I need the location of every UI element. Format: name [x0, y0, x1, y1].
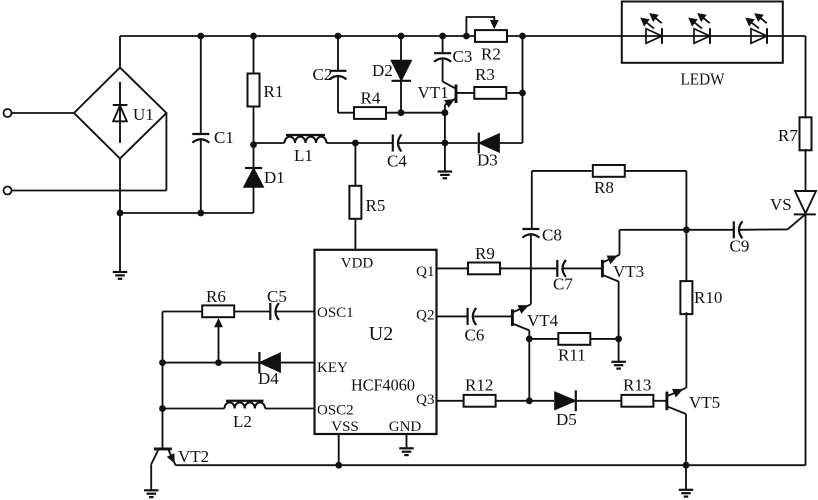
wire [165, 113, 167, 191]
wire [280, 362, 314, 364]
resistor R11 [558, 333, 590, 345]
wire [528, 330, 530, 400]
LED 1 [646, 29, 662, 44]
wire [437, 267, 468, 269]
node VT5 emitter / rail [683, 462, 690, 469]
node R2 right [519, 33, 526, 40]
transistor VT4 [511, 309, 514, 326]
capacitor C8 [522, 228, 539, 230]
wire [685, 230, 687, 283]
node bridge-neg junction [117, 210, 124, 217]
capacitor C6 [467, 308, 469, 325]
ground [150, 464, 152, 490]
wire [400, 81, 402, 113]
wire [120, 35, 475, 37]
wire [531, 171, 533, 229]
ground [444, 143, 446, 172]
ground below bridge [113, 271, 128, 273]
svg-text:R2: R2 [481, 45, 501, 64]
LED module box [622, 2, 783, 63]
resistor R10 [680, 281, 692, 314]
svg-text:R1: R1 [264, 82, 284, 101]
R2 wiper arrow [490, 20, 499, 29]
resistor R1 [248, 74, 260, 107]
wire [386, 112, 445, 114]
LED 3 [751, 29, 767, 44]
IC U2 HCF4060 [315, 250, 437, 434]
ground below VT2 [144, 489, 159, 491]
node VT4 emitter / R11 left [526, 336, 533, 343]
wire [200, 36, 202, 134]
wire [626, 170, 687, 172]
diode D1 [244, 168, 264, 187]
resistor R5 [349, 186, 361, 219]
resistor R3 [474, 87, 506, 99]
wire [163, 311, 203, 313]
svg-text:C3: C3 [453, 47, 473, 66]
wire [466, 17, 494, 36]
node R1 bottom / L1 [250, 141, 257, 148]
wire [444, 105, 446, 113]
node C1 top [197, 33, 204, 40]
ground [119, 213, 121, 272]
capacitor C4 [392, 135, 394, 152]
wire [685, 414, 687, 465]
svg-text:L1: L1 [294, 146, 313, 165]
node C3 top [439, 33, 446, 40]
wire [686, 229, 733, 231]
transistor VT1 [455, 85, 458, 104]
wire [805, 214, 807, 465]
svg-text:KEY: KEY [317, 360, 348, 376]
wire [619, 230, 621, 255]
capacitor C9 [733, 221, 735, 238]
wire [507, 35, 806, 37]
wire [253, 107, 255, 145]
thyristor VS [795, 191, 816, 213]
svg-text:R7: R7 [778, 126, 798, 145]
node C2 top [335, 33, 342, 40]
svg-text:VT4: VT4 [527, 311, 559, 330]
node VT1 emitter / C4 row [442, 140, 449, 147]
resistor R9 [468, 263, 500, 275]
node R3 right [519, 90, 526, 97]
wire [176, 464, 806, 466]
resistor R4 [354, 107, 386, 119]
wire [400, 36, 402, 61]
wire [620, 229, 687, 231]
wire [500, 267, 557, 269]
resistor R8 [593, 165, 625, 177]
svg-text:R12: R12 [465, 376, 493, 395]
wire [473, 315, 511, 317]
node KEY / left column [159, 359, 166, 366]
wire [276, 311, 315, 313]
wire [529, 338, 558, 340]
svg-text:C6: C6 [465, 326, 485, 345]
wire [805, 149, 807, 191]
wire [685, 312, 687, 388]
svg-text:D1: D1 [264, 168, 285, 187]
capacitor C2 [330, 70, 347, 72]
wire [163, 362, 259, 364]
node C9 / R10 junction [683, 226, 690, 233]
svg-text:R4: R4 [361, 89, 381, 108]
wire [163, 408, 225, 410]
wire [253, 145, 255, 168]
node VT4 / Q3 row [526, 397, 533, 404]
wire [162, 312, 164, 449]
svg-text:VDD: VDD [341, 256, 374, 272]
wire [354, 219, 356, 250]
svg-text:OSC2: OSC2 [317, 403, 354, 419]
diode D2 [391, 60, 412, 81]
wire [338, 434, 340, 465]
wire [442, 59, 444, 82]
ground [685, 465, 687, 490]
bridge rectifier U1 [74, 68, 166, 159]
svg-text:VT1: VT1 [418, 83, 449, 102]
wire [119, 36, 121, 68]
node D2 top [398, 33, 405, 40]
wire [530, 234, 532, 304]
capacitor C1 [192, 133, 209, 135]
node D2 bottom [398, 109, 405, 116]
node C1 bottom [197, 210, 204, 217]
terminal input bottom [4, 187, 12, 195]
node R5 top junction [352, 140, 359, 147]
node R1 top [250, 33, 257, 40]
wire [590, 338, 618, 340]
wire [506, 92, 522, 94]
node VSS / bottom rail [335, 462, 342, 469]
svg-text:VSS: VSS [331, 419, 359, 435]
wire [445, 142, 478, 144]
svg-text:R13: R13 [623, 376, 651, 395]
wire [685, 171, 687, 230]
resistor R12 [464, 395, 496, 407]
wire [354, 143, 356, 185]
ground below R11 [611, 361, 626, 363]
svg-text:R5: R5 [366, 196, 386, 215]
node OSC2 / left column [159, 405, 166, 412]
ground [406, 434, 408, 448]
inductor L2 [225, 402, 266, 408]
wire [805, 36, 807, 119]
svg-text:D3: D3 [477, 151, 498, 170]
ground below VT1 [438, 170, 453, 172]
svg-text:D2: D2 [372, 61, 393, 80]
wire [437, 400, 464, 402]
diode D5 [555, 392, 576, 410]
svg-text:C2: C2 [313, 65, 333, 84]
transistor VT5 [665, 392, 668, 411]
wire [576, 400, 621, 402]
wire [338, 112, 354, 114]
svg-text:GND: GND [389, 419, 422, 435]
wire [12, 190, 167, 192]
wire [532, 170, 592, 172]
wire [327, 142, 393, 144]
svg-text:Q2: Q2 [416, 308, 434, 324]
wire [398, 142, 445, 144]
svg-text:L2: L2 [233, 412, 252, 431]
wire [253, 36, 255, 74]
terminal input top [4, 109, 12, 117]
wire [522, 36, 524, 143]
svg-text:OSC1: OSC1 [317, 305, 354, 321]
wire [442, 36, 444, 53]
wire [618, 282, 620, 339]
transistor VT3 [601, 260, 604, 278]
svg-text:Q3: Q3 [416, 392, 434, 408]
inductor L1 [285, 137, 327, 143]
R6 wiper arrow [214, 318, 223, 327]
wire [254, 142, 285, 144]
svg-text:VS: VS [770, 195, 792, 214]
svg-text:R3: R3 [475, 65, 495, 84]
resistor R13 [621, 395, 653, 407]
svg-text:HCF4060: HCF4060 [351, 376, 415, 395]
ground GND pin [399, 447, 414, 449]
resistor R7 [800, 117, 812, 150]
wire [496, 400, 554, 402]
svg-text:C8: C8 [542, 226, 562, 245]
wire [218, 327, 220, 363]
capacitor C7 [556, 260, 558, 277]
svg-text:R9: R9 [475, 244, 495, 263]
ground [618, 339, 620, 362]
svg-text:R8: R8 [594, 178, 614, 197]
wire [499, 142, 522, 144]
wire [120, 212, 254, 214]
svg-text:VT5: VT5 [689, 393, 720, 412]
svg-text:R11: R11 [558, 346, 586, 365]
wire [337, 36, 339, 71]
wire [437, 315, 468, 317]
node R2 wiper [463, 33, 470, 40]
potentiometer R2 [475, 30, 507, 42]
capacitor C5 [269, 303, 271, 320]
node VT1 emitter junction [442, 109, 449, 116]
wire [119, 159, 121, 214]
wire [234, 311, 271, 313]
wire [563, 267, 601, 269]
svg-text:C9: C9 [730, 237, 750, 256]
wire [200, 140, 202, 214]
ground below VT5 [679, 489, 694, 491]
node R6 wiper / KEY row [215, 359, 222, 366]
wire [265, 408, 315, 410]
svg-text:C4: C4 [387, 152, 407, 171]
svg-text:U1: U1 [133, 105, 154, 124]
svg-text:VT2: VT2 [178, 447, 209, 466]
svg-text:R10: R10 [694, 288, 722, 307]
transistor VT2 [154, 447, 172, 450]
wire [253, 187, 255, 213]
node VT3 emitter / R11 [615, 336, 622, 343]
svg-text:LEDW: LEDW [681, 70, 725, 89]
diode D4 [259, 353, 280, 373]
diode D3 [479, 134, 500, 153]
LED 2 [694, 29, 710, 44]
wire [653, 400, 665, 402]
wire [337, 76, 339, 113]
svg-text:C5: C5 [267, 287, 287, 306]
svg-text:VT3: VT3 [613, 262, 644, 281]
svg-text:D4: D4 [258, 369, 279, 388]
svg-text:U2: U2 [369, 323, 393, 345]
svg-text:C7: C7 [553, 275, 573, 294]
wire [456, 92, 475, 94]
svg-text:D5: D5 [556, 410, 577, 429]
svg-text:R6: R6 [206, 287, 226, 306]
resistor R6 [202, 305, 234, 317]
svg-text:C1: C1 [214, 128, 234, 147]
wire [12, 112, 75, 114]
wire [444, 113, 446, 143]
wire [739, 228, 787, 230]
capacitor C3 [434, 52, 451, 54]
svg-text:Q1: Q1 [416, 264, 434, 280]
